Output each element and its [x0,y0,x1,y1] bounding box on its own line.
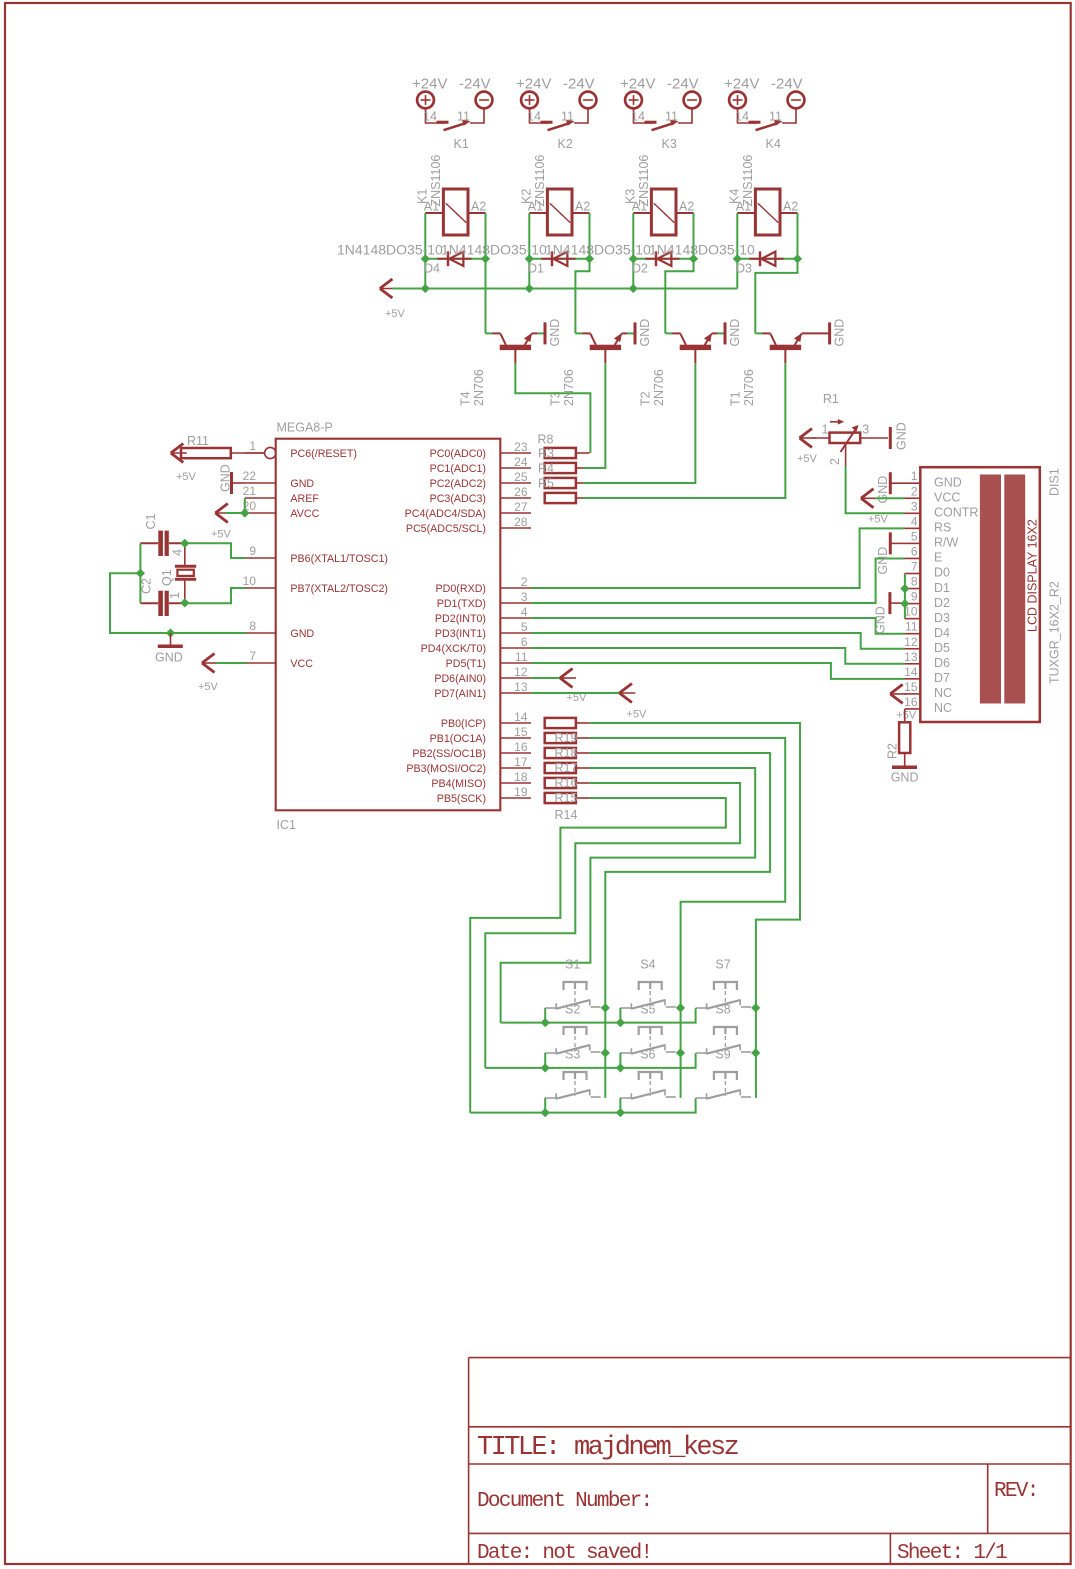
svg-text:R15: R15 [555,791,578,805]
DIS1 pin 3 CONTR [905,512,921,514]
svg-text:2N706: 2N706 [472,369,486,406]
svg-text:D4: D4 [424,262,440,276]
svg-text:+5V: +5V [868,514,889,526]
IC1 pin 3 PD1(TXD) [500,602,531,604]
svg-text:D0: D0 [934,566,950,580]
IC1 pin 6 PD4(XCK/T0) [500,647,531,649]
capacitor C1 [158,531,163,556]
junction D1 anode [525,254,534,263]
IC1 pin 9 PB6(XTAL1/TOSC1) [245,557,276,559]
svg-text:+24V: +24V [412,76,447,93]
svg-text:R1: R1 [823,392,839,406]
IC1 pin 20 AVCC [245,512,276,514]
svg-text:PD0(RXD): PD0(RXD) [436,583,486,595]
ground symbol at T1 emitter [828,322,831,344]
transistor T1 2N706 [770,345,801,350]
svg-text:C1: C1 [144,513,158,529]
wire D2 cathode to T2 collector [665,259,693,334]
switch S6 [639,1072,662,1080]
svg-text:11: 11 [515,650,528,664]
junction D1 cathode [585,254,594,263]
svg-text:GND: GND [290,628,314,640]
wire switch col2 row2 left contact drop [619,1053,621,1068]
svg-text:R14: R14 [555,808,578,822]
svg-text:Q1: Q1 [160,569,174,586]
transistor T4 2N706 [500,345,531,350]
svg-text:14: 14 [514,710,528,724]
svg-text:PB5(SCK): PB5(SCK) [437,793,486,805]
relay contact K3 (pins 14/11) [634,108,654,123]
svg-text:VCC: VCC [934,490,960,504]
junction D4 anode [421,254,430,263]
svg-text:D1: D1 [528,262,544,276]
resistor R6 [545,493,576,503]
wire K3 A1 to +5V rail / diode [632,213,634,289]
svg-text:E: E [934,551,942,565]
DIS1 pin 9 D2 [905,603,921,605]
DIS1 pin 12 D5 [905,648,921,650]
svg-text:4: 4 [171,549,185,556]
svg-text:R17: R17 [555,761,578,775]
IC1 pin 8 GND [245,632,276,634]
svg-text:A2: A2 [783,200,798,214]
svg-text:PC0(ADC0): PC0(ADC0) [430,448,486,460]
junction K3 A1 on rail [629,284,638,293]
svg-text:Sheet: 1/1: Sheet: 1/1 [897,1542,1007,1565]
ground symbol at T4 emitter [544,322,547,344]
svg-text:16: 16 [514,740,528,754]
svg-text:GND: GND [638,319,652,347]
svg-text:-24V: -24V [771,76,803,93]
svg-text:8: 8 [911,575,918,589]
+24V supply symbol (K2 contact) [521,92,538,109]
junction D2 tie [900,599,909,608]
IC1 pin 21 AREF [245,497,276,499]
svg-text:7: 7 [911,560,918,574]
svg-text:1N4148DO35-10: 1N4148DO35-10 [337,242,443,258]
junction K2 A1 on rail [525,284,534,293]
svg-text:12: 12 [514,665,528,679]
junction row3 col2 [616,1108,625,1117]
-24V supply symbol (K3 contact) [684,92,701,109]
svg-text:AVCC: AVCC [290,508,319,520]
ground symbol below R2 [892,766,917,770]
junction row1 col1 [541,1018,550,1027]
resistor R11 [181,448,231,458]
+24V supply symbol (K1 contact) [417,92,434,109]
svg-text:T2: T2 [639,391,653,406]
DIS1 pin 11 D4 [905,633,921,635]
IC1 pin 15 PB1(OC1A) [500,737,531,739]
svg-text:PC3(ADC3): PC3(ADC3) [430,493,486,505]
svg-text:24: 24 [514,455,528,469]
svg-text:R4: R4 [538,462,554,476]
svg-text:Date: not saved!: Date: not saved! [477,1542,651,1565]
svg-text:R11: R11 [187,434,209,448]
svg-text:D3: D3 [736,262,752,276]
wire T3 collector stub [575,332,582,334]
svg-text:A1: A1 [632,200,647,214]
wire R6 to T1 base [583,497,785,499]
+5V arrow at R1 [800,429,813,448]
wire T3 emitter to ground [622,332,628,334]
wire PD1 to LCD E [531,559,905,604]
junction column 2 row1 right contact [676,1003,685,1012]
svg-text:4: 4 [521,605,528,619]
svg-text:T4: T4 [459,391,473,406]
svg-text:10: 10 [243,574,257,588]
svg-text:5: 5 [521,620,528,634]
IC1 pin 10 PB7(XTAL2/TOSC2) [245,587,276,589]
wire PD4 to LCD D6 [531,648,905,664]
svg-text:majdnem_kesz: majdnem_kesz [574,1433,739,1463]
junction D2 anode [629,254,638,263]
svg-text:AREF: AREF [290,493,319,505]
relay contact K4 (pins 14/11) [738,108,758,123]
svg-text:D4: D4 [934,626,950,640]
wire T1 collector stub [755,332,762,334]
wire PD2 to LCD D4 [531,618,905,634]
svg-text:T1: T1 [729,391,743,406]
wire switch col2 row3 left contact drop [619,1098,621,1113]
svg-text:GND: GND [891,771,919,785]
svg-text:S3: S3 [565,1048,580,1062]
crystal Q1 [175,565,196,568]
svg-text:6: 6 [911,544,918,558]
IC1 pin 12 PD6(AIN0) [500,677,531,679]
svg-text:PB0(ICP): PB0(ICP) [441,718,486,730]
wire K4 A2 down to diode row [797,213,799,259]
resistor R4 [545,463,576,473]
wire PB3 to keypad row 1 [501,768,756,1023]
svg-text:14: 14 [631,110,645,124]
svg-text:D1: D1 [934,581,950,595]
switch S9 [714,1072,737,1080]
wire D1 cathode to T3 collector [575,259,589,334]
switch S7 [714,982,737,990]
junction AVCC node [240,508,249,517]
svg-text:PB4(MISO): PB4(MISO) [431,778,486,790]
svg-text:+24V: +24V [516,76,551,93]
svg-text:VCC: VCC [290,658,313,670]
wire R4 to T3 base [583,467,605,469]
svg-text:9: 9 [249,544,256,558]
DIS1 pin 8 D1 [905,588,921,590]
ground symbol at T3 emitter [634,322,637,344]
DIS1 pin 5 R/W [905,542,921,544]
resistor keypad stack pin y=723 [545,718,576,728]
resistor R3 [545,448,576,458]
svg-text:PC2(ADC2): PC2(ADC2) [430,478,486,490]
svg-text:RS: RS [934,521,951,535]
relay contact K1 (pins 14/11) [426,108,446,123]
junction column 1 row1 right contact [601,1003,610,1012]
svg-text:17: 17 [514,755,528,769]
svg-text:R5: R5 [538,477,554,491]
junction D1 tie [900,584,909,593]
svg-text:PD2(INT0): PD2(INT0) [435,613,486,625]
relay coil K3 ZNS1106 [651,189,676,235]
svg-text:1: 1 [822,422,829,436]
wire K2 A2 down to diode row [589,213,591,259]
svg-text:14: 14 [904,665,918,679]
svg-text:2N706: 2N706 [652,369,666,406]
svg-text:2N706: 2N706 [742,369,756,406]
svg-text:3: 3 [862,422,869,436]
svg-text:PD7(AIN1): PD7(AIN1) [434,688,486,700]
IC1 pin 2 PD0(RXD) [500,587,531,589]
svg-text:+5V: +5V [627,709,648,721]
svg-text:18: 18 [514,770,528,784]
svg-text:7: 7 [249,649,256,663]
svg-text:13: 13 [514,680,528,694]
wire T1 emitter to ground [802,332,829,334]
svg-text:15: 15 [904,680,918,694]
svg-text:MEGA8-P: MEGA8-P [277,421,333,435]
transistor T3 2N706 [590,345,621,350]
svg-text:1N4148DO35-10: 1N4148DO35-10 [649,242,755,258]
junction column 2 row2 right contact [676,1048,685,1057]
ground symbol at DIS1 pin 1 [889,472,892,494]
wire XTAL1 net to pin 9 [185,543,246,558]
svg-text:25: 25 [514,470,528,484]
+5V arrow at VCC pin 7 [202,654,215,673]
DIS1 pin 16 NC [905,708,921,710]
-24V supply symbol (K4 contact) [788,92,805,109]
svg-text:21: 21 [243,484,257,498]
IC1 pin 26 PC3(ADC3) [500,497,531,499]
svg-text:2: 2 [828,458,842,465]
svg-text:PC4(ADC4/SDA): PC4(ADC4/SDA) [405,508,486,520]
junction crystal bottom [180,598,189,607]
wire T2 emitter to ground [712,332,718,334]
svg-text:GND: GND [728,319,742,347]
svg-text:GND: GND [874,606,888,634]
wire D4 cathode to T4 collector [485,259,487,334]
wire keypad row 2 [485,1053,695,1068]
transistor T2 2N706 [680,345,711,350]
IC1 pin 17 PB3(MOSI/OC2) [500,767,531,769]
svg-text:1N4148DO35-10: 1N4148DO35-10 [545,242,651,258]
diode D3 1N4148DO35-10 [737,258,797,260]
DIS1 pin 7 D0 [905,573,921,575]
svg-text:27: 27 [514,500,528,514]
wire K1 A1 to +5V rail / diode [424,213,426,289]
svg-text:1N4148DO35-10: 1N4148DO35-10 [441,242,547,258]
svg-text:D2: D2 [934,596,950,610]
svg-text:11: 11 [665,110,678,124]
+5V arrow at AVCC [215,504,228,523]
wire left leg to GND rail [110,573,246,633]
svg-text:+5V: +5V [198,681,219,693]
resistor R15 [545,793,576,803]
relay coil K1 ZNS1106 [443,189,468,235]
DIS1 pin 15 NC [905,693,921,695]
svg-text:15: 15 [514,725,528,739]
wire T4 emitter to ground [532,332,538,334]
svg-text:1: 1 [911,469,918,483]
relay contact K2 (pins 14/11) [530,108,550,123]
svg-text:+5V: +5V [176,471,197,483]
+5V arrow at PD7 [531,692,620,694]
resistor R16 [545,778,576,788]
+5V arrow at DIS1 pin 2 [861,489,874,508]
wire PD3 to LCD D5 [531,633,905,649]
svg-text:+5V: +5V [385,308,406,320]
svg-text:R2: R2 [886,743,900,759]
svg-text:26: 26 [514,485,528,499]
svg-text:1: 1 [168,592,182,599]
svg-text:4: 4 [911,514,918,528]
switch S1 [564,982,587,990]
-24V supply symbol (K1 contact) [476,92,493,109]
svg-text:GND: GND [548,319,562,347]
svg-text:19: 19 [514,785,528,799]
DIS1 pin 1 GND [905,482,921,484]
wire T4 collector stub [485,332,492,334]
svg-text:5: 5 [911,529,918,543]
svg-text:TUXGR_16X2_R2: TUXGR_16X2_R2 [1048,581,1062,684]
svg-text:PD6(AIN0): PD6(AIN0) [434,673,486,685]
wire PB5 to keypad row 3 [470,798,726,1113]
svg-text:PB7(XTAL2/TOSC2): PB7(XTAL2/TOSC2) [290,583,388,595]
svg-text:A2: A2 [471,200,486,214]
resistor R19 [545,733,576,743]
wire T3 base to R4 [583,363,605,468]
wire switch col1 row3 left contact drop [544,1098,546,1113]
svg-text:D7: D7 [934,671,950,685]
junction C1/C2 left [136,569,145,578]
capacitor C2 [158,591,163,616]
wire PD5 to LCD D7 [531,663,905,679]
+24V supply symbol (K4 contact) [729,92,746,109]
svg-text:13: 13 [904,650,918,664]
LCD display DIS1 TUXGR_16X2_R2 body [920,467,1040,722]
switch S4 [639,982,662,990]
wire PB4 to keypad row 2 [485,783,740,1068]
wire PB0 to keypad column S7-S9 [590,723,800,1098]
ground symbol below pin 8 net [170,633,172,645]
wire R1 wiper to LCD CONTR [845,443,847,467]
junction column 3 row2 right contact [751,1048,760,1057]
diode D1 1N4148DO35-10 [529,258,589,260]
svg-text:6: 6 [521,635,528,649]
svg-text:S9: S9 [715,1048,730,1062]
svg-text:A2: A2 [679,200,694,214]
wire K1 A2 down to diode row [485,213,487,259]
+5V arrow at PD6 [531,677,561,679]
wire PB2 to keypad column S1-S3 [590,753,771,1098]
wire D3 cathode to T1 collector [755,259,797,334]
junction row1 col2 [616,1018,625,1027]
svg-text:REV:: REV: [994,1480,1038,1503]
svg-text:GND: GND [934,475,962,489]
title block frame [469,1358,1070,1564]
IC1 pin 19 PB5(SCK) [500,797,531,799]
wire K2 A1 to +5V rail / diode [528,213,530,289]
wire PD0 to LCD RS [531,528,905,588]
junction row3 col1 [541,1108,550,1117]
svg-text:S7: S7 [715,958,730,972]
svg-text:K4: K4 [766,137,781,151]
svg-text:LCD DISPLAY 16X2: LCD DISPLAY 16X2 [1026,519,1040,632]
wire keypad row 1 [501,1008,696,1022]
svg-text:R3: R3 [538,447,554,461]
IC1 pin 5 PD3(INT1) [500,632,531,634]
DIS1 pin 2 VCC [905,497,921,499]
IC1 pin 27 PC4(ADC4/SDA) [500,512,531,514]
svg-text:GND: GND [219,464,233,492]
svg-text:+24V: +24V [620,76,655,93]
IC1 pin 7 VCC [245,662,276,664]
svg-text:PD1(TXD): PD1(TXD) [437,598,486,610]
svg-text:A1: A1 [528,200,543,214]
svg-text:11: 11 [769,110,782,124]
switch S2 [564,1027,587,1035]
IC1 pin 11 PD5(T1) [500,662,531,664]
svg-text:A1: A1 [424,200,439,214]
wire R5 to T2 base [583,482,695,484]
diode D4 1N4148DO35-10 [425,258,485,260]
wire PB1 to keypad column S4-S6 [590,738,786,1098]
svg-text:S6: S6 [640,1048,655,1062]
svg-text:K2: K2 [558,137,573,151]
junction GND drop [166,628,175,637]
svg-text:GND: GND [876,476,890,504]
svg-text:R8: R8 [538,433,554,447]
junction D3 cathode [793,254,802,263]
svg-text:D5: D5 [934,641,950,655]
svg-text:NC: NC [934,701,952,715]
svg-text:PC5(ADC5/SCL): PC5(ADC5/SCL) [406,523,486,535]
svg-text:R16: R16 [555,776,578,790]
svg-text:C2: C2 [140,578,154,594]
DIS1 pin 14 D7 [905,678,921,680]
wire T2 collector stub [665,332,672,334]
wire D0-D3 tie [904,574,906,619]
IC1 pin 16 PB2(SS/OC1B) [500,752,531,754]
svg-text:DIS1: DIS1 [1048,468,1062,496]
svg-text:+24V: +24V [724,76,759,93]
svg-text:-24V: -24V [459,76,491,93]
svg-text:8: 8 [249,619,256,633]
svg-text:K1: K1 [454,137,469,151]
wire DIS1 pin16 to R2 [904,709,906,722]
svg-text:11: 11 [561,110,574,124]
resistor R5 [545,478,576,488]
wire switch col1 row1 left contact drop [544,1008,546,1023]
svg-text:+5V: +5V [896,710,917,722]
IC1 pin 22 GND [245,482,276,484]
svg-text:2: 2 [911,484,918,498]
junction column 3 row1 right contact [751,1003,760,1012]
IC U-IC1 MEGA8-P body [276,439,501,811]
ground symbol at IC1 pin 22 [230,472,233,494]
ground symbol at T2 emitter [724,322,727,344]
ground symbol at DIS1 pin 5 [889,532,892,554]
svg-text:14: 14 [423,110,437,124]
switch S5 [639,1027,662,1035]
svg-text:+5V: +5V [797,453,818,465]
svg-text:S4: S4 [640,958,655,972]
svg-text:PD5(T1): PD5(T1) [446,658,486,670]
svg-text:A1: A1 [736,200,751,214]
svg-text:NC: NC [934,686,952,700]
wire C1 left to C2 left [139,543,141,603]
svg-text:IC1: IC1 [277,818,297,832]
IC1 pin 13 PD7(AIN1) [500,692,531,694]
IC1 pin 23 PC0(ADC0) [500,452,531,454]
